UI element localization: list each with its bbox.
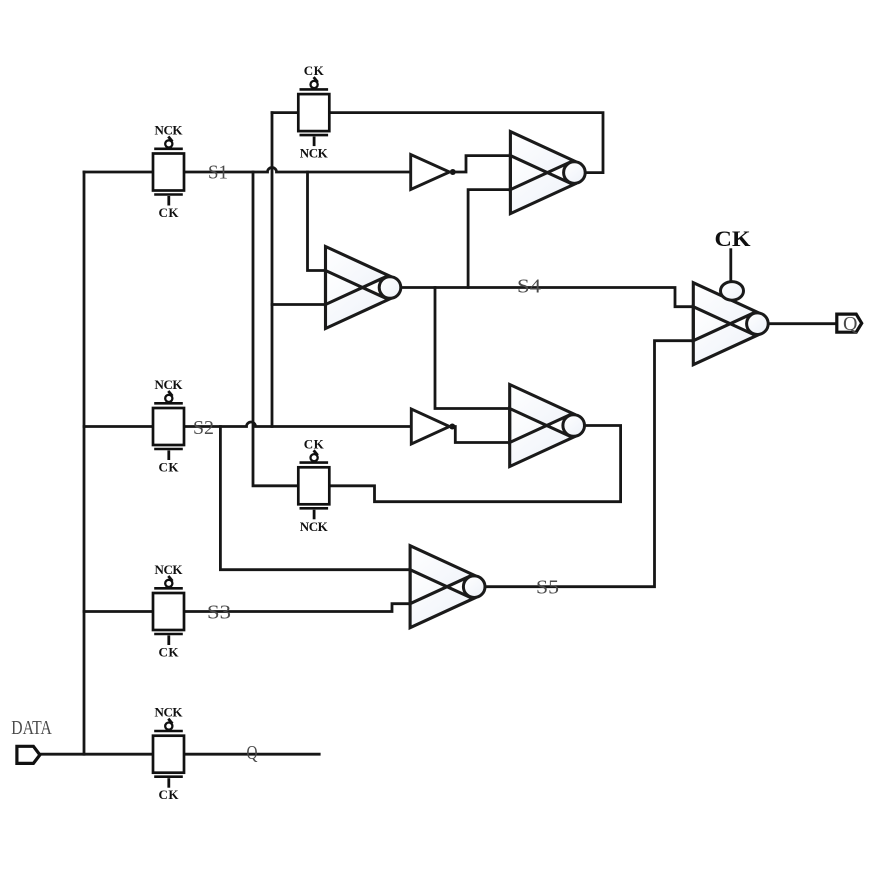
svg-text:NCK: NCK <box>155 123 184 138</box>
wire: inverter2 output to U4 lower input <box>452 427 509 443</box>
svg-text:DATA: DATA <box>11 717 52 739</box>
wire: TG5 left terminal to vertical B <box>272 111 299 114</box>
svg-text:NCK: NCK <box>300 146 329 161</box>
wire: row S1 from bus to inverter (hop over vertical at x=272) <box>84 168 411 173</box>
wire: U5 output to Q port <box>768 322 837 325</box>
svg-text:Q: Q <box>247 742 258 764</box>
svg-text:CK: CK <box>159 205 180 220</box>
svg-text:S2: S2 <box>193 417 214 439</box>
svg-text:NCK: NCK <box>155 562 184 577</box>
wire: row S3 from bus to tristate U3 lower input with jog <box>84 604 410 612</box>
svg-text:CK: CK <box>159 460 180 475</box>
wire: row DATA/Q from port to output stub <box>40 753 319 756</box>
junction dot at inverter1 output <box>450 169 456 175</box>
wire: U1 output feedback loop to TG5 right terminal <box>329 113 603 173</box>
transmission gate TG2 (NCK/CK) <box>153 377 184 475</box>
transmission gate TG4 (NCK/CK) <box>153 705 184 803</box>
tristate inverter U1 (top right pair) <box>510 132 585 214</box>
DATA input port <box>17 746 40 763</box>
tristate output buffer U5 (clocked by CK) <box>693 282 768 365</box>
svg-text:NCK: NCK <box>155 705 184 720</box>
svg-text:CK: CK <box>159 645 180 660</box>
wire: branch B to U2 lower input <box>272 303 326 306</box>
wire: S5 net from U3 output up to U5 lower input <box>485 341 693 587</box>
svg-text:NCK: NCK <box>155 377 184 392</box>
wire: S4 net from U2 output to U5 upper input <box>401 288 693 307</box>
wire: inverter1 output to U1 upper input <box>453 156 511 172</box>
wire: vertical S1 to TG6 input <box>253 172 299 486</box>
wire: S4 branch down to U4 upper input <box>435 288 510 409</box>
svg-text:CK: CK <box>304 436 325 451</box>
svg-text:CK: CK <box>159 787 180 802</box>
wire: left data bus vertical <box>83 172 86 754</box>
svg-text:S3: S3 <box>207 602 231 624</box>
Q output port <box>837 314 862 332</box>
svg-text:S4: S4 <box>517 276 541 298</box>
svg-text:NCK: NCK <box>300 519 329 534</box>
junction dot at inverter2 output <box>449 424 455 430</box>
transmission gate TG3 (NCK/CK) <box>153 562 184 660</box>
transmission gate TG1 (NCK/CK) <box>153 123 184 221</box>
wire: S2 to U3 upper input <box>220 427 410 570</box>
svg-text:S1: S1 <box>208 162 228 184</box>
wire: row S2 from bus to inverter (hop over vertical at x=251) <box>84 422 411 427</box>
wire: vertical B from TG5 down to S2 <box>271 113 274 427</box>
U5 output bubble <box>747 313 769 335</box>
wire: CK stem to U5 enable bubble <box>729 250 732 282</box>
wire: U1 lower input from S4 <box>468 190 510 288</box>
inverter INV2 <box>411 409 449 444</box>
tristate inverter U3 (drives S5) <box>410 546 485 628</box>
wire: vertical S1 to U2 upper input <box>308 172 326 271</box>
transmission gate TG5 top feedback (CK/NCK) <box>298 63 329 161</box>
svg-text:S5: S5 <box>536 577 559 599</box>
wire: U4 output feedback loop to TG6 right terminal <box>329 426 621 502</box>
svg-text:Q: Q <box>843 313 858 335</box>
transmission gate TG6 bottom feedback (CK/NCK) <box>298 436 329 534</box>
svg-text:CK: CK <box>715 226 751 251</box>
inverter INV1 <box>411 155 450 190</box>
tristate inverter U4 (bottom right pair) <box>510 385 585 467</box>
tristate inverter U2 (middle, drives S4) <box>326 247 401 329</box>
svg-text:CK: CK <box>304 63 325 78</box>
U5 enable bubble (CK) <box>721 282 744 301</box>
